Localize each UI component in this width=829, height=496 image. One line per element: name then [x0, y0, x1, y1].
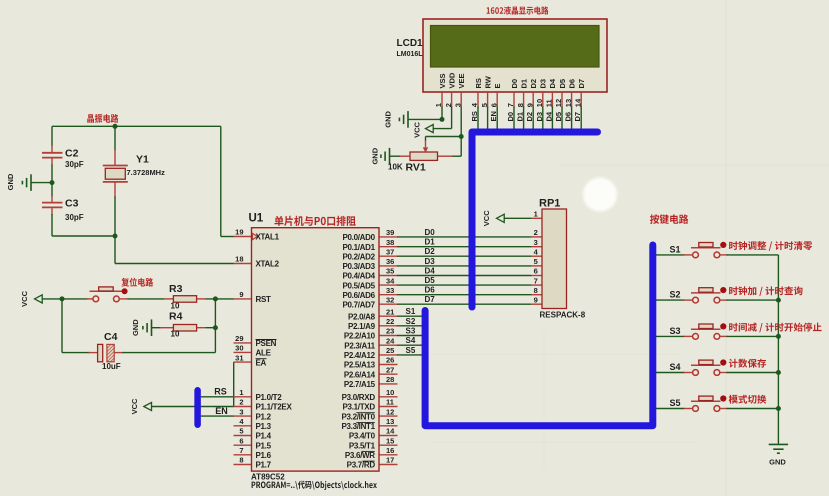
svg-text:6: 6 — [239, 436, 243, 445]
svg-text:P3.0/RXD: P3.0/RXD — [342, 393, 376, 402]
svg-text:8: 8 — [534, 286, 538, 295]
svg-text:25: 25 — [386, 346, 394, 355]
svg-text:5: 5 — [239, 427, 243, 436]
svg-text:R4: R4 — [169, 311, 183, 323]
svg-text:S5: S5 — [670, 398, 681, 408]
svg-text:D3: D3 — [425, 257, 436, 266]
svg-text:24: 24 — [386, 336, 395, 345]
svg-text:EN: EN — [489, 111, 498, 121]
svg-text:D1: D1 — [519, 79, 528, 89]
svg-text:12: 12 — [386, 407, 394, 416]
svg-text:R3: R3 — [169, 283, 183, 295]
svg-text:RS: RS — [474, 78, 483, 88]
svg-text:P2.1/A9: P2.1/A9 — [348, 322, 376, 331]
svg-text:LM016L: LM016L — [397, 51, 424, 58]
svg-text:C3: C3 — [65, 198, 79, 210]
svg-text:P1.6: P1.6 — [256, 451, 272, 460]
svg-text:22: 22 — [386, 317, 394, 326]
svg-text:P3.1/TXD: P3.1/TXD — [343, 403, 376, 412]
svg-text:26: 26 — [386, 356, 394, 365]
svg-text:ALE: ALE — [256, 349, 272, 358]
svg-text:D6: D6 — [564, 112, 573, 122]
svg-text:P2.3/A11: P2.3/A11 — [344, 341, 375, 350]
svg-text:P0.6/AD6: P0.6/AD6 — [343, 291, 376, 300]
svg-text:E: E — [493, 83, 502, 88]
svg-text:VCC: VCC — [20, 290, 29, 306]
svg-text:12: 12 — [554, 99, 563, 107]
svg-text:D5: D5 — [554, 112, 563, 122]
svg-text:P2.5/A13: P2.5/A13 — [344, 361, 376, 370]
svg-text:S2: S2 — [670, 290, 681, 300]
svg-text:GND: GND — [131, 319, 140, 336]
svg-text:RV1: RV1 — [406, 162, 426, 174]
svg-text:VEE: VEE — [457, 73, 466, 88]
svg-text:RS: RS — [470, 111, 479, 121]
svg-text:XTAL2: XTAL2 — [256, 260, 280, 269]
svg-text:RP1: RP1 — [539, 198, 560, 210]
svg-text:VDD: VDD — [447, 72, 456, 88]
svg-text:S2: S2 — [406, 317, 416, 326]
svg-text:30pF: 30pF — [65, 213, 84, 222]
svg-text:D5: D5 — [425, 276, 436, 285]
svg-text:2: 2 — [444, 103, 453, 107]
svg-text:30: 30 — [235, 344, 243, 353]
svg-text:D7: D7 — [425, 295, 436, 304]
svg-text:10: 10 — [171, 330, 180, 339]
svg-text:P0.0/AD0: P0.0/AD0 — [343, 233, 376, 242]
svg-text:28: 28 — [386, 375, 394, 384]
svg-text:EA: EA — [256, 358, 267, 367]
svg-text:P0.1/AD1: P0.1/AD1 — [343, 243, 376, 252]
svg-text:10K: 10K — [388, 162, 403, 171]
svg-text:RESPACK-8: RESPACK-8 — [540, 311, 586, 320]
svg-text:1: 1 — [534, 210, 538, 219]
svg-text:P0.7/AD7: P0.7/AD7 — [343, 300, 376, 309]
svg-text:U1: U1 — [249, 213, 264, 225]
svg-text:AT89C52: AT89C52 — [251, 473, 285, 482]
svg-text:P1.0/T2: P1.0/T2 — [256, 393, 283, 402]
svg-text:RS: RS — [214, 387, 227, 397]
svg-text:D5: D5 — [558, 79, 567, 89]
svg-text:3: 3 — [239, 407, 243, 416]
svg-text:D4: D4 — [425, 267, 436, 276]
svg-text:D2: D2 — [425, 247, 436, 256]
svg-text:S5: S5 — [406, 346, 416, 355]
svg-text:9: 9 — [239, 290, 243, 299]
svg-text:3: 3 — [534, 238, 538, 247]
svg-text:D6: D6 — [567, 79, 576, 89]
svg-text:P1.4: P1.4 — [256, 432, 272, 441]
svg-text:5: 5 — [534, 257, 538, 266]
svg-text:Y1: Y1 — [136, 154, 149, 166]
svg-text:S1: S1 — [670, 244, 681, 254]
svg-text:GND: GND — [384, 110, 393, 127]
svg-text:27: 27 — [386, 365, 394, 374]
svg-text:D0: D0 — [425, 228, 436, 237]
svg-text:D0: D0 — [506, 112, 515, 122]
svg-text:10uF: 10uF — [102, 362, 121, 371]
svg-text:1: 1 — [239, 388, 243, 397]
svg-text:S1: S1 — [406, 307, 416, 316]
svg-text:11: 11 — [386, 398, 394, 407]
svg-text:P3.3/INT1: P3.3/INT1 — [341, 422, 375, 431]
svg-text:P0.4/AD4: P0.4/AD4 — [343, 272, 376, 281]
svg-text:P1.7: P1.7 — [256, 461, 272, 470]
svg-text:36: 36 — [386, 257, 394, 266]
svg-text:8: 8 — [239, 456, 243, 465]
svg-text:6: 6 — [534, 267, 538, 276]
svg-text:VCC: VCC — [130, 398, 139, 414]
svg-text:10: 10 — [171, 302, 180, 311]
svg-text:EN: EN — [215, 406, 228, 416]
svg-text:P1.3: P1.3 — [256, 422, 272, 431]
svg-text:D2: D2 — [525, 112, 534, 122]
svg-text:6: 6 — [489, 103, 498, 107]
svg-text:8: 8 — [516, 103, 525, 107]
svg-text:GND: GND — [371, 147, 380, 164]
svg-text:P3.6/WR: P3.6/WR — [345, 451, 375, 460]
svg-text:P3.5/T1: P3.5/T1 — [349, 441, 376, 450]
svg-text:5: 5 — [480, 103, 489, 107]
svg-text:31: 31 — [235, 353, 243, 362]
svg-text:S4: S4 — [670, 362, 681, 372]
svg-text:13: 13 — [386, 417, 394, 426]
svg-text:RW: RW — [483, 75, 492, 88]
svg-text:17: 17 — [386, 456, 394, 465]
svg-text:D7: D7 — [573, 112, 582, 122]
svg-text:P1.1/T2EX: P1.1/T2EX — [256, 403, 293, 412]
svg-text:P3.4/T0: P3.4/T0 — [349, 432, 376, 441]
svg-text:D4: D4 — [548, 78, 557, 88]
svg-text:7.3728MHz: 7.3728MHz — [127, 168, 166, 177]
svg-text:7: 7 — [506, 103, 515, 107]
svg-text:23: 23 — [386, 327, 394, 336]
svg-text:P1.2: P1.2 — [256, 412, 272, 421]
svg-text:P2.0/A8: P2.0/A8 — [348, 312, 376, 321]
svg-text:VCC: VCC — [482, 210, 491, 226]
svg-text:P2.4/A12: P2.4/A12 — [344, 351, 376, 360]
svg-text:19: 19 — [235, 228, 243, 237]
svg-text:D1: D1 — [516, 112, 525, 122]
svg-text:2: 2 — [239, 398, 243, 407]
svg-text:VCC: VCC — [413, 122, 422, 138]
svg-text:D6: D6 — [425, 286, 436, 295]
svg-text:38: 38 — [386, 238, 394, 247]
svg-text:29: 29 — [235, 334, 243, 343]
svg-text:D4: D4 — [544, 111, 553, 121]
svg-text:21: 21 — [386, 307, 394, 316]
svg-text:10: 10 — [386, 388, 394, 397]
svg-text:C2: C2 — [65, 148, 79, 160]
svg-text:P2.2/A10: P2.2/A10 — [344, 332, 376, 341]
svg-text:16: 16 — [386, 446, 394, 455]
svg-text:VSS: VSS — [438, 73, 447, 88]
svg-text:33: 33 — [386, 286, 394, 295]
svg-text:35: 35 — [386, 267, 394, 276]
svg-text:RST: RST — [256, 295, 272, 304]
svg-text:S3: S3 — [406, 327, 416, 336]
svg-text:C4: C4 — [104, 331, 118, 343]
svg-text:D7: D7 — [577, 79, 586, 89]
svg-text:D3: D3 — [539, 79, 548, 89]
svg-text:P1.5: P1.5 — [256, 441, 272, 450]
svg-text:9: 9 — [525, 103, 534, 107]
svg-text:11: 11 — [545, 99, 554, 107]
svg-text:D2: D2 — [529, 79, 538, 89]
svg-text:39: 39 — [386, 228, 394, 237]
svg-text:30pF: 30pF — [65, 160, 84, 169]
svg-text:P2.6/A14: P2.6/A14 — [344, 370, 376, 379]
svg-text:14: 14 — [386, 427, 395, 436]
svg-text:D3: D3 — [535, 112, 544, 122]
svg-text:14: 14 — [573, 98, 582, 107]
svg-text:S3: S3 — [670, 326, 681, 336]
svg-text:P0.3/AD3: P0.3/AD3 — [343, 262, 376, 271]
svg-text:P3.7/RD: P3.7/RD — [347, 461, 376, 470]
svg-text:2: 2 — [534, 228, 538, 237]
svg-text:P0.2/AD2: P0.2/AD2 — [343, 252, 376, 261]
svg-text:XTAL1: XTAL1 — [256, 233, 280, 242]
svg-text:D1: D1 — [425, 238, 436, 247]
svg-text:GND: GND — [6, 173, 15, 190]
svg-text:37: 37 — [386, 247, 394, 256]
svg-text:15: 15 — [386, 436, 394, 445]
svg-text:34: 34 — [386, 276, 395, 285]
svg-text:10: 10 — [535, 99, 544, 107]
svg-text:P0.5/AD5: P0.5/AD5 — [343, 281, 376, 290]
svg-text:P3.2/INT0: P3.2/INT0 — [341, 412, 375, 421]
svg-text:PSEN: PSEN — [256, 339, 277, 348]
svg-text:LCD1: LCD1 — [397, 38, 424, 49]
svg-text:13: 13 — [564, 99, 573, 107]
svg-text:18: 18 — [235, 255, 243, 264]
svg-text:1: 1 — [434, 103, 443, 107]
svg-text:D0: D0 — [510, 79, 519, 89]
svg-text:GND: GND — [769, 458, 786, 467]
svg-text:32: 32 — [386, 295, 394, 304]
svg-text:7: 7 — [239, 446, 243, 455]
svg-text:7: 7 — [534, 276, 538, 285]
svg-text:9: 9 — [534, 295, 538, 304]
svg-text:S4: S4 — [406, 336, 416, 345]
svg-text:3: 3 — [453, 103, 462, 107]
svg-text:P2.7/A15: P2.7/A15 — [344, 380, 376, 389]
